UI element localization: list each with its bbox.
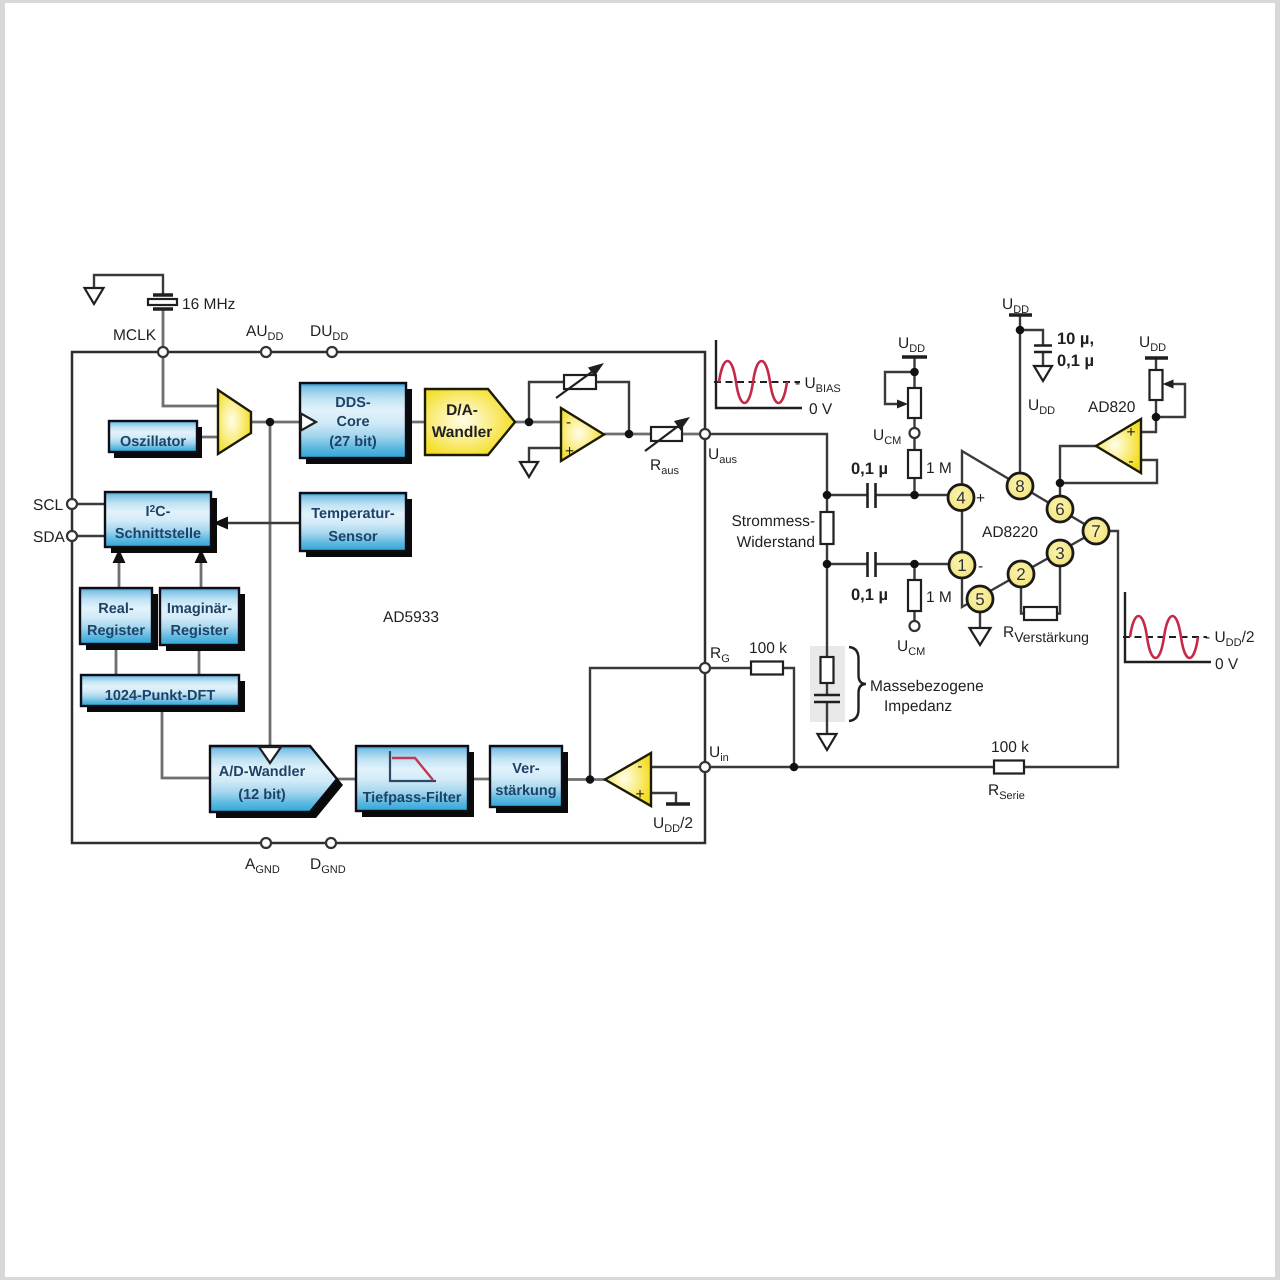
- svg-text:0,1 µ: 0,1 µ: [1057, 352, 1094, 370]
- svg-text:-: -: [566, 414, 571, 431]
- svg-text:A/D-Wandler: A/D-Wandler: [219, 764, 306, 780]
- svg-text:-: -: [637, 758, 642, 775]
- svg-text:1: 1: [957, 556, 966, 575]
- svg-text:4: 4: [956, 489, 965, 508]
- svg-text:DDS-: DDS-: [335, 395, 371, 411]
- svg-text:AD5933: AD5933: [383, 609, 439, 626]
- svg-text:(27 bit): (27 bit): [329, 434, 377, 450]
- svg-text:-: -: [1128, 453, 1133, 470]
- svg-text:1 M: 1 M: [926, 589, 952, 606]
- svg-text:16 MHz: 16 MHz: [182, 296, 235, 313]
- svg-text:1024-Punkt-DFT: 1024-Punkt-DFT: [105, 688, 216, 704]
- svg-text:+: +: [976, 490, 985, 507]
- svg-text:2: 2: [1016, 565, 1025, 584]
- svg-text:+: +: [1126, 424, 1135, 441]
- svg-text:Wandler: Wandler: [432, 424, 493, 441]
- svg-text:AD820: AD820: [1088, 399, 1136, 416]
- svg-text:10 µ,: 10 µ,: [1057, 330, 1094, 348]
- svg-text:Tiefpass-Filter: Tiefpass-Filter: [363, 790, 462, 806]
- svg-text:I2C-: I2C-: [146, 504, 171, 520]
- svg-text:Real-: Real-: [98, 601, 134, 617]
- svg-text:Widerstand: Widerstand: [737, 534, 815, 551]
- svg-text:100 k: 100 k: [991, 739, 1029, 756]
- svg-text:Imaginär-: Imaginär-: [167, 601, 232, 617]
- svg-text:5: 5: [975, 590, 984, 609]
- svg-text:8: 8: [1015, 477, 1024, 496]
- svg-text:Ver-: Ver-: [512, 761, 540, 777]
- svg-text:0,1 µ: 0,1 µ: [851, 586, 888, 604]
- svg-text:Strommess-: Strommess-: [731, 513, 815, 530]
- svg-text:-: -: [978, 558, 983, 575]
- svg-text:Temperatur-: Temperatur-: [311, 506, 395, 522]
- svg-text:0,1 µ: 0,1 µ: [851, 460, 888, 478]
- svg-text:SCL: SCL: [33, 497, 64, 514]
- svg-text:Register: Register: [170, 623, 228, 639]
- svg-text:1 M: 1 M: [926, 460, 952, 477]
- svg-text:100 k: 100 k: [749, 640, 787, 657]
- svg-text:Massebezogene: Massebezogene: [870, 678, 984, 695]
- svg-text:stärkung: stärkung: [495, 783, 556, 799]
- svg-text:Register: Register: [87, 623, 145, 639]
- svg-text:Core: Core: [336, 414, 369, 430]
- svg-text:Sensor: Sensor: [328, 529, 378, 545]
- svg-text:+: +: [565, 443, 574, 460]
- svg-text:Impedanz: Impedanz: [884, 698, 952, 715]
- svg-text:Oszillator: Oszillator: [120, 434, 186, 450]
- svg-text:Schnittstelle: Schnittstelle: [115, 526, 201, 542]
- svg-text:6: 6: [1055, 500, 1064, 519]
- svg-text:D/A-: D/A-: [446, 402, 478, 419]
- svg-text:0 V: 0 V: [1215, 656, 1239, 673]
- svg-text:+: +: [635, 786, 644, 803]
- svg-text:(12 bit): (12 bit): [238, 787, 286, 803]
- svg-text:3: 3: [1055, 544, 1064, 563]
- svg-text:7: 7: [1091, 522, 1100, 541]
- svg-text:MCLK: MCLK: [113, 327, 157, 344]
- svg-text:SDA: SDA: [33, 529, 66, 546]
- svg-text:0 V: 0 V: [809, 401, 833, 418]
- svg-text:AD8220: AD8220: [982, 524, 1038, 541]
